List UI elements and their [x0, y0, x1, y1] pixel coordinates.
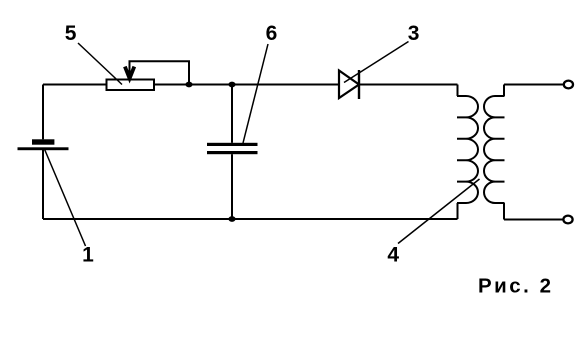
svg-text:4: 4: [387, 244, 399, 267]
leader line to label 3: [344, 42, 409, 83]
wire left vertical (top rail to battery): [42, 85, 44, 140]
svg-text:Рис. 2: Рис. 2: [478, 275, 553, 298]
diode VD1 cathode bar: [358, 70, 360, 99]
wire bottom rail (battery to transformer): [43, 218, 458, 220]
svg-text:5: 5: [65, 22, 77, 45]
wire capacitor bottom vertical: [231, 154, 233, 219]
wire top rail (diode to transformer): [359, 84, 458, 86]
capacitor C1 top plate: [207, 143, 258, 146]
node junction dot (capacitor top): [228, 82, 235, 88]
wire secondary bottom to terminal: [504, 219, 563, 221]
leader line to label 1: [44, 148, 86, 246]
battery GB1 short thick plate: [32, 139, 54, 144]
svg-text:1: 1: [82, 243, 94, 266]
wire secondary top to terminal: [504, 84, 563, 86]
leader line to label 4: [398, 179, 480, 244]
leader line to label 6: [243, 44, 268, 143]
leader line to label 5: [78, 43, 122, 85]
wire capacitor top vertical: [231, 85, 233, 143]
transformer T1 secondary winding: [484, 85, 505, 220]
wiper arrowhead: [125, 67, 134, 79]
terminal top: [564, 81, 573, 89]
node junction dot (wiper to rail): [185, 82, 192, 88]
terminal bottom: [563, 216, 572, 224]
wire top rail left (battery corner to resistor): [43, 84, 107, 86]
transformer T1 primary winding: [457, 85, 478, 220]
node junction dot (capacitor bottom): [228, 216, 235, 222]
svg-text:6: 6: [266, 22, 278, 45]
wire top rail (resistor to diode): [154, 84, 339, 86]
wiper arrow shaft and loop wire: [130, 61, 190, 84]
diode VD1 triangle: [339, 71, 359, 99]
battery GB1 long thin plate: [18, 147, 69, 150]
capacitor C1 bottom plate: [207, 151, 258, 154]
resistor (potentiometer body) R1: [107, 80, 155, 91]
svg-text:3: 3: [408, 22, 420, 45]
wire left vertical (battery to bottom rail): [42, 150, 44, 219]
